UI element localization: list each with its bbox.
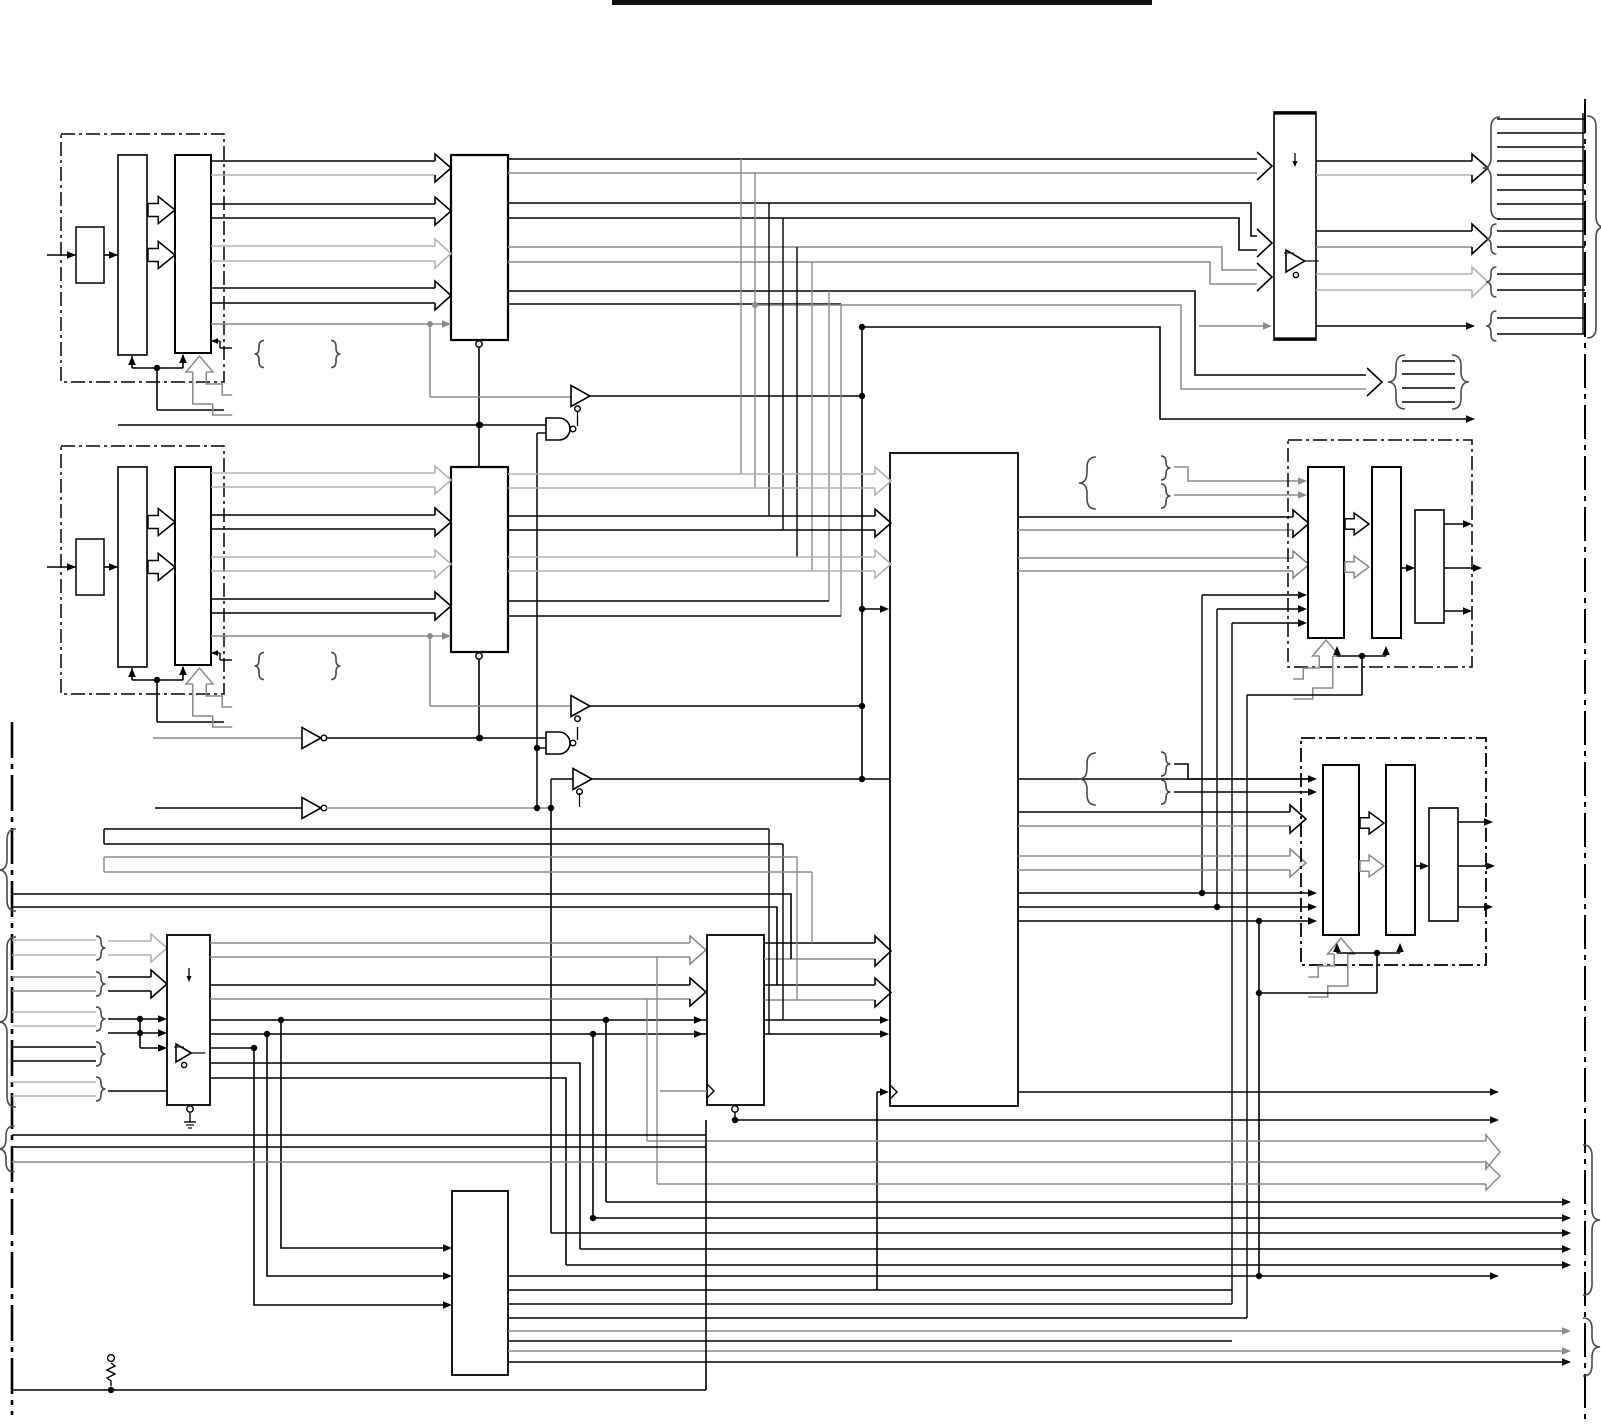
R1 driver block [1415, 510, 1444, 623]
sub2 gray select wire to A2 [211, 635, 430, 637]
tristate buffer W2 [571, 696, 590, 717]
mux clock wire [108, 1090, 167, 1092]
inline buffer U5 [302, 728, 321, 749]
sub1 bus2 to A1 [211, 203, 435, 205]
sub1 bus4 to A1 [211, 287, 435, 289]
tristate buffer W3 [573, 769, 592, 790]
trunk bus1 arrowhead [1257, 152, 1272, 180]
inline buffer U6 input wire [155, 807, 302, 809]
inline buffer U6 [302, 798, 321, 819]
sub1 bus3 to A1 [211, 245, 435, 247]
subsystem 1 latch register [175, 155, 211, 353]
subsystem 2 bus arrow divider-latch upper [148, 509, 175, 536]
trunk bus1 line a [508, 158, 1258, 160]
right bundle brace lower [1583, 1318, 1600, 1376]
R2 driver outputs [1458, 821, 1487, 823]
connector brace grp1 [1483, 117, 1500, 219]
R1 bus arrow lower [1345, 556, 1369, 578]
subsystem1 long control wire to NAND U2 [118, 424, 546, 426]
verticals up to R1 selects [1201, 595, 1203, 893]
buffer U6 output wire gray [326, 807, 551, 809]
M2 output bus to C1 lower [764, 984, 875, 986]
sub2 bus2 to A2 [211, 514, 435, 516]
T1 output bus3 [1316, 273, 1472, 275]
C1 output bus to R2 upper [1018, 811, 1290, 813]
M1 output bus2 [210, 984, 690, 986]
subsystem 2 hold wire stub [211, 652, 220, 654]
left input pair 1 [12, 939, 96, 941]
R1 feedback hollow up-arrow [1313, 640, 1340, 656]
W3 output long wire [592, 778, 1310, 780]
M1 driver symbol [176, 1044, 191, 1062]
tap vertical 1 [740, 159, 742, 474]
sub1 bus1 to A1 [211, 160, 435, 162]
bundle arrowhead mid-right [1367, 368, 1382, 396]
left input brace big [0, 937, 16, 1107]
bottom register F1 [452, 1191, 508, 1375]
R1 to driver wire [1401, 567, 1409, 569]
vertical V1259 [1258, 921, 1260, 1276]
C1 output bus to R2 lower [1018, 855, 1290, 857]
C1 output bus to R1 lower [1018, 557, 1293, 559]
R2 clock wires [1336, 945, 1338, 953]
trunk select wire to connector [862, 327, 1468, 419]
left input pair 4 [12, 1046, 96, 1048]
trunk bus2 line b [508, 218, 1258, 250]
sub2 bus4 lines east [508, 600, 829, 602]
trunk bus1 line b [508, 172, 1258, 174]
C1 output bus to R1 upper [1018, 516, 1293, 518]
subsystem 1 oscillator block [76, 227, 104, 283]
trunk bus4 line a [508, 291, 1366, 375]
T1 output bus1 [1316, 160, 1472, 162]
hollow bus D to right [656, 957, 658, 1184]
sub1 gray select wire to A1 [211, 323, 430, 325]
mux select wire 1 [108, 1018, 161, 1020]
tap vertical 4 [782, 218, 784, 530]
left input pair 5 [12, 1081, 96, 1083]
subsystem 2 reload wire with arrows [132, 679, 183, 681]
trunk bus2 arrowhead [1257, 229, 1272, 257]
M1 direction arrow symbol [188, 968, 190, 980]
right subsystem lower dash-dot enclosure [1301, 738, 1486, 965]
bundle wire y1249 [580, 1248, 1565, 1250]
mux M1 input bus2 [108, 976, 151, 978]
R2 feedback hollow up-arrow [1328, 938, 1355, 954]
subsystem 1 divider register [118, 155, 147, 355]
M1 output select wires [210, 1019, 606, 1021]
W2 output wire [590, 705, 862, 707]
subsystem 1 brace left [255, 341, 265, 368]
M1 wires to bottom register stairs [210, 1063, 580, 1249]
right subsystem upper dash-dot enclosure [1288, 440, 1472, 667]
connector brace grp4 [1486, 311, 1496, 341]
subsystem 1 dash-dot enclosure [61, 134, 224, 382]
M1 bottom bubble and ground [187, 1106, 193, 1112]
output register A1 [451, 155, 508, 340]
external wires to C1 selects [0, 829, 16, 911]
connector lines grp4 [1497, 317, 1585, 319]
gray wire down to tristate W1 [429, 324, 431, 397]
left input pair 3 [12, 1011, 96, 1013]
trunk bus2 line a [508, 203, 1258, 236]
W3 enable wire [579, 793, 581, 807]
gray wire down to tristate W2 [429, 636, 431, 706]
subsystem 1 bus arrow divider-latch lower [148, 242, 175, 269]
M1 output bus1 [210, 942, 690, 944]
U3 to W2 enable wire [577, 727, 579, 740]
central brace group top [1079, 457, 1096, 509]
connector lines grp1 [1497, 118, 1585, 120]
subsystem 1 input wire [47, 254, 76, 256]
subsystem 2 brace left [255, 653, 265, 680]
R2 output register [1386, 765, 1415, 935]
trunk wire to mid bundle gray [755, 305, 1366, 389]
T1 driver symbol [1286, 250, 1305, 272]
right boundary dash-dot line [1584, 99, 1586, 1419]
trunk bus4 line b [508, 303, 841, 305]
U2 input2 wire from vertical V537 [537, 432, 546, 434]
right edge vertical tie [1582, 113, 1584, 334]
C1 input bus2 [508, 515, 875, 517]
bundle wire y1092 [1018, 1091, 1493, 1093]
tap vertical 8 [840, 304, 842, 616]
mid connector closing brace [1452, 355, 1469, 409]
bottom rail wire [12, 1389, 706, 1391]
T1 output single wire [1316, 325, 1468, 327]
subsystem 1 feedback hollow up-arrow [186, 356, 213, 372]
left edge brace small [0, 1126, 14, 1172]
central register C1 [890, 453, 1018, 1106]
mux select wire 3 [139, 1019, 141, 1048]
subsystem 2 dash-dot enclosure [61, 446, 224, 694]
subsystem 1 hold wire stub [211, 340, 220, 342]
connector brace grp2 [1486, 224, 1496, 254]
subsystem 2 bus arrow divider-latch lower [148, 554, 175, 581]
R2 bus arrow upper [1360, 812, 1384, 834]
tristate buffer W1 [571, 386, 590, 407]
gray stub into transceiver [1199, 325, 1266, 327]
bundle wire y1120 [735, 1119, 1493, 1121]
tap vertical 5 [796, 247, 798, 557]
select verticals down to bundle [605, 1020, 607, 1202]
pull-up resistor [108, 1355, 115, 1362]
subsystem 2 wire osc to divider [104, 566, 118, 568]
tri-state shared select vertical [861, 327, 863, 779]
mux register M1 [167, 935, 210, 1105]
W3 input L-wire [550, 779, 552, 806]
subsystem 1 wire osc to divider [104, 254, 118, 256]
R1 latch register [1308, 467, 1344, 638]
T1 output bus2 [1316, 230, 1472, 232]
F1 outputs right [508, 1289, 1232, 1291]
mid connector lines [1402, 360, 1455, 362]
M2 output bus to C1 upper [764, 942, 875, 944]
U2 to W1 enable wire [577, 411, 579, 426]
trunk bus3 line b [508, 262, 1258, 284]
tap vertical 3 [768, 203, 770, 516]
big closing brace right [1587, 116, 1601, 338]
R1 bus arrow upper [1345, 513, 1369, 535]
central brace group lower [1079, 753, 1096, 805]
R2 latch register [1323, 765, 1359, 935]
subsystem 2 brace right [331, 653, 341, 680]
wires continue to C1 [606, 1019, 884, 1021]
C1 input bus3 [508, 556, 875, 558]
subsystem 2 feedback hollow up-arrow [186, 668, 213, 684]
wires from braces to right latch R2 [1174, 764, 1310, 779]
R2 bus arrow lower [1360, 855, 1384, 877]
wide bus bar 1 [103, 829, 105, 844]
right bundle brace upper [1583, 1145, 1600, 1295]
trunk bus3 line a [508, 247, 1258, 270]
subsystem 1 reload wire with arrows [132, 367, 183, 369]
sub2 bus1 to A2 [211, 472, 435, 474]
R1 clock wires [1336, 648, 1338, 656]
vertical V1247 [1246, 695, 1248, 1318]
sub2 bus3 to A2 [211, 556, 435, 558]
tap vertical 2 [754, 173, 756, 488]
middle register M2 [707, 935, 764, 1105]
bundle wire y1233 [551, 1232, 1565, 1234]
left input pair 2 [12, 976, 96, 978]
hollow bus C to right [646, 999, 648, 1141]
M2 bottom bubble [732, 1106, 738, 1112]
R1 driver outputs [1444, 523, 1466, 525]
NAND gate U3 [546, 732, 570, 754]
wide bus bar 2 [103, 857, 105, 872]
mux M1 input bus1 [108, 940, 151, 942]
subsystem 2 oscillator block [76, 539, 104, 595]
bundle wire y1276 [508, 1275, 1493, 1277]
R2 driver block [1429, 808, 1458, 921]
bundle wire y1202 [606, 1201, 1565, 1203]
subsystem 1 brace right [331, 341, 341, 368]
connector brace grp3 [1486, 267, 1496, 297]
mid connector brace [1388, 355, 1405, 409]
C1 output wires to R2 registers [1018, 892, 1310, 894]
bundle wire y1218 [593, 1217, 1565, 1219]
subsystem 2 divider register [118, 467, 147, 667]
A2 enable bubble [476, 653, 482, 659]
wires from braces to right latch R1 [1174, 467, 1301, 481]
connector lines grp3 [1497, 273, 1585, 275]
tap vertical 7 [828, 291, 830, 601]
M2 clock wire [660, 1090, 707, 1092]
C1 input bus1 [508, 473, 875, 475]
M1 taps down to bottom register F1 [278, 1017, 284, 1023]
buffer U5 output wire [326, 737, 546, 739]
subsystem2 inline buffer U5 input wire [153, 737, 302, 739]
A1 enable bubble and wire [476, 341, 482, 347]
NAND gate U2 [546, 418, 570, 440]
subsystem 2 input wire [47, 566, 76, 568]
U3 input2 stub [537, 747, 546, 749]
sub2 bus4 to A2 [211, 598, 435, 600]
T1 direction arrow symbol [1294, 153, 1296, 165]
trunk bus3 arrowhead [1257, 263, 1272, 291]
transceiver T1 [1274, 112, 1316, 340]
left boundary dash-dot line [11, 722, 14, 1415]
W1 output wire [590, 395, 862, 397]
output register A2 [451, 467, 508, 652]
clock wire to C1 [876, 1092, 878, 1290]
connector lines grp2 [1497, 230, 1585, 232]
vertical wire V551 to bottom bundle [550, 810, 552, 1233]
bundle wire y1265 [566, 1264, 1565, 1266]
subsystem 1 bus arrow divider-latch upper [148, 197, 175, 224]
R2 to driver wire [1415, 865, 1423, 867]
bundle wires from left edge [12, 1134, 706, 1136]
subsystem 2 latch register [175, 467, 211, 665]
tap vertical 6 [811, 262, 813, 571]
mux select wire 2 [108, 1032, 161, 1034]
R1 output register [1372, 467, 1401, 638]
title underline [612, 0, 1152, 5]
